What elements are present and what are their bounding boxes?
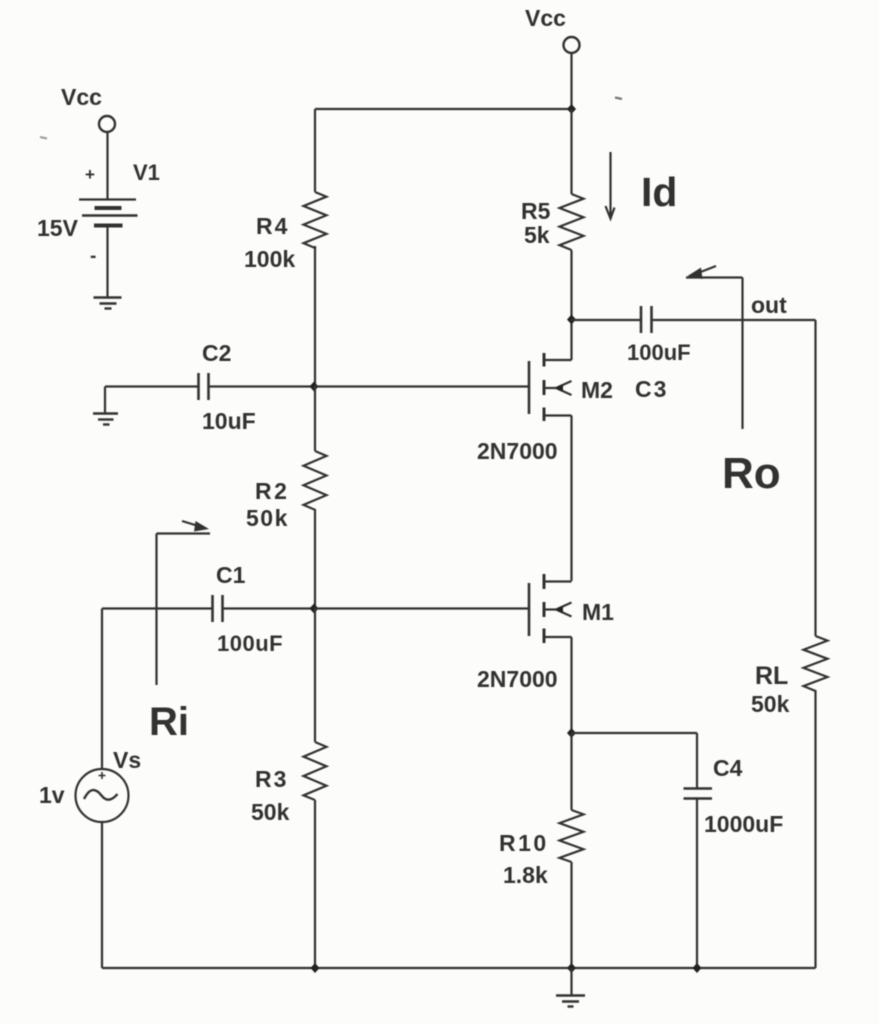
wire RL bottom to ground rail — [814, 691, 816, 968]
label C1 — [216, 562, 246, 588]
value 1v (Vs) — [39, 782, 65, 808]
svg-text:Ri: Ri — [149, 700, 189, 744]
svg-text:Vs: Vs — [113, 747, 141, 773]
wire gate node to M2 gate — [314, 385, 528, 387]
value 10uF (C2) — [202, 408, 256, 434]
transistor M2 (2N7000) — [529, 353, 572, 421]
wire Vcc terminal to battery — [106, 132, 108, 199]
svg-text:R4: R4 — [256, 213, 289, 239]
wire R10 bottom to ground rail — [570, 862, 572, 968]
transistor M1 (2N7000) — [529, 574, 572, 643]
label M2 — [581, 377, 613, 403]
junction out node — [567, 315, 576, 325]
wire ground stub (C2 left) — [104, 387, 106, 414]
svg-text:1000uF: 1000uF — [704, 811, 783, 837]
label C4 — [713, 755, 743, 781]
svg-text:50k: 50k — [246, 505, 289, 531]
wire top rail (R4 top to Vcc junction) — [315, 108, 572, 110]
svg-text:C1: C1 — [216, 562, 246, 588]
value 1000uF (C4) — [704, 811, 783, 837]
junction C1/R2/R3 node — [310, 604, 319, 614]
label R3 — [255, 766, 288, 792]
svg-text:RL: RL — [755, 662, 788, 690]
wire M2 source to M1 drain — [570, 416, 572, 582]
capacitor C2 — [199, 373, 209, 400]
svg-text:R3: R3 — [255, 766, 288, 792]
battery V1 — [79, 200, 138, 226]
wire battery to ground — [106, 226, 108, 297]
wire C1 right to gate node of M1 — [223, 607, 315, 609]
svg-text:C3: C3 — [635, 376, 668, 402]
svg-text:Vcc: Vcc — [525, 5, 566, 31]
label C3 — [635, 376, 668, 402]
label Ro — [722, 449, 781, 498]
wire R3 bottom to ground rail — [314, 800, 316, 968]
label R5 — [521, 198, 551, 224]
resistor R2 — [304, 451, 327, 510]
resistor R3 — [304, 742, 327, 800]
junction R3 / ground rail — [311, 963, 320, 973]
wire R10 top lead — [570, 733, 572, 810]
value 100uF (C3) — [627, 340, 691, 365]
resistor RL — [804, 636, 828, 691]
label Ri — [149, 700, 189, 744]
polarity + (V1) — [85, 165, 95, 184]
label C2 — [202, 340, 231, 366]
svg-text:R10: R10 — [499, 830, 549, 856]
probe arrow Ri — [157, 521, 211, 685]
svg-text:R5: R5 — [521, 198, 551, 224]
wire ground stub (bottom) — [570, 968, 572, 995]
polarity - (V1) — [90, 246, 96, 267]
capacitor C4 — [684, 789, 713, 799]
wire C4 top lead — [696, 733, 698, 788]
value 100uF (C1) — [217, 631, 283, 656]
value 50k (R2) — [246, 505, 289, 531]
junction Vcc rail — [567, 104, 576, 114]
svg-text:2N7000: 2N7000 — [477, 666, 558, 692]
wire out node to C3 — [572, 319, 642, 321]
svg-text:1v: 1v — [39, 782, 65, 808]
junction M1 source / R10 / C4 — [567, 728, 576, 738]
svg-text:50k: 50k — [251, 799, 290, 825]
resistor R10 — [560, 810, 584, 862]
wire R5 bottom to out node — [570, 250, 572, 319]
junction R10 / ground rail — [567, 963, 576, 973]
svg-text:C2: C2 — [202, 340, 231, 366]
ground (left of C2) — [93, 414, 118, 425]
ground (below V1) — [94, 298, 122, 309]
wire R4 bottom to C2 node — [314, 246, 316, 386]
node out label — [751, 292, 787, 318]
wire C3 to out corner — [652, 319, 816, 321]
svg-text:1.8k: 1.8k — [503, 862, 548, 888]
junction C2/R4/R2 node — [310, 382, 319, 392]
label V1 — [133, 160, 160, 185]
wire R4 top lead — [314, 109, 316, 192]
wire ground rail (bottom) — [102, 967, 816, 969]
svg-text:10uF: 10uF — [202, 408, 256, 434]
wire R2 top lead — [314, 387, 316, 452]
node Vcc (left supply) terminal — [99, 116, 115, 132]
wire R3 top lead — [314, 609, 316, 743]
node Vcc terminal (top) — [564, 37, 580, 53]
label R10 — [499, 830, 549, 856]
svg-text:Ro: Ro — [722, 449, 781, 498]
value 1.8k (R10) — [503, 862, 548, 888]
svg-text:5k: 5k — [524, 222, 550, 248]
capacitor C3 — [641, 306, 652, 333]
value 2N7000 (M1) — [477, 666, 558, 692]
svg-text:out: out — [751, 292, 787, 318]
label RL — [755, 662, 788, 690]
svg-text:M1: M1 — [582, 599, 614, 625]
svg-text:+: + — [85, 165, 95, 184]
label R4 — [256, 213, 289, 239]
label R2 — [255, 478, 289, 504]
value 5k (R5) — [524, 222, 550, 248]
label Vs — [113, 747, 141, 773]
probe arrow Ro — [686, 266, 743, 429]
ground (bottom) — [556, 996, 585, 1007]
stray scan mark near Vcc rail — [615, 98, 622, 100]
value 50k (RL) — [751, 691, 790, 717]
value 15V (V1) — [37, 215, 79, 241]
svg-text:15V: 15V — [37, 215, 79, 241]
resistor R5 — [560, 194, 584, 250]
svg-text:C4: C4 — [713, 755, 743, 781]
wire gate node to M1 gate — [314, 607, 528, 609]
svg-text:-: - — [90, 246, 96, 267]
capacitor C1 — [213, 595, 223, 622]
value 50k (R3) — [251, 799, 290, 825]
wire out to RL top — [814, 320, 816, 636]
wire R10 node to C4 — [572, 732, 698, 734]
svg-text:Vcc: Vcc — [61, 84, 102, 110]
svg-text:2N7000: 2N7000 — [477, 438, 558, 464]
current arrow Id — [606, 152, 615, 219]
source Vs (sine) — [76, 769, 129, 822]
svg-text:V1: V1 — [133, 160, 160, 185]
junction C4 / ground rail — [693, 963, 702, 973]
value 2N7000 (M2) — [477, 438, 558, 464]
label Id — [641, 169, 677, 215]
wire M1 source to R10 node — [570, 637, 572, 733]
svg-text:100uF: 100uF — [217, 631, 283, 656]
svg-text:R2: R2 — [255, 478, 289, 504]
wire C2 right to gate node — [209, 385, 315, 387]
svg-text:50k: 50k — [751, 691, 790, 717]
wire Vcc terminal to top rail — [570, 53, 572, 108]
svg-text:Id: Id — [641, 169, 677, 215]
wire R5 top lead — [570, 109, 572, 194]
wire R2 bottom to C1 node — [314, 510, 316, 608]
wire M2 drain to out node — [570, 319, 572, 360]
wire C1 left lead (from Vs branch) — [102, 607, 212, 609]
label M1 — [582, 599, 614, 625]
wire C2 left lead (from ground stub) — [105, 385, 198, 387]
stray scan mark left margin — [40, 137, 47, 139]
wire C4 bottom to ground rail — [696, 799, 698, 969]
node Vcc label (left) — [61, 84, 102, 110]
wire Vs bottom to ground rail — [101, 822, 103, 968]
wire Vs top lead — [101, 609, 103, 770]
svg-text:100uF: 100uF — [627, 340, 691, 365]
resistor R4 — [304, 192, 327, 248]
svg-text:M2: M2 — [581, 377, 613, 403]
value 100k (R4) — [244, 246, 295, 272]
node Vcc label (top) — [525, 5, 566, 31]
svg-text:100k: 100k — [244, 246, 295, 272]
